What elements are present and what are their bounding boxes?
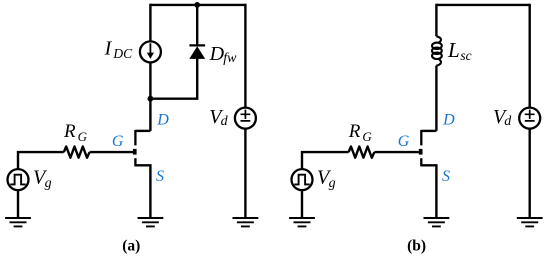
pulse glyph (b) [294, 175, 309, 185]
svg-text:fw: fw [223, 51, 237, 66]
svg-text:g: g [45, 176, 52, 191]
svg-text:sc: sc [460, 48, 471, 63]
transistor Q1 channel upper segment (a) [134, 130, 136, 145]
svg-text:D: D [442, 111, 455, 128]
wire: top rail (b) [436, 4, 529, 6]
wire: V_d branch lower (b) [529, 129, 531, 217]
wire: diode branch upper [196, 4, 198, 46]
wire: I_DC branch upper [149, 4, 151, 41]
ground: under source (b) [424, 218, 450, 226]
svg-text:d: d [504, 114, 512, 129]
current source I_DC arrow [149, 43, 151, 53]
svg-text:S: S [442, 168, 450, 185]
wire: V_d branch lower (a) [244, 129, 246, 217]
wire: top rail (a) [150, 4, 245, 6]
svg-text:G: G [362, 129, 372, 144]
diode D_fw triangle [189, 46, 205, 59]
wire: gate lead (b) [374, 151, 419, 153]
wire: gate lead (a) [90, 151, 133, 153]
wire: drain link (a) [135, 130, 150, 132]
pulse glyph (a) [10, 175, 25, 185]
svg-text:D: D [209, 43, 225, 65]
wire: drain branch below inductor (b) [435, 66, 437, 131]
wire: source link + source down (a) [135, 165, 150, 217]
transistor Q1 channel lower segment (a) [134, 158, 136, 166]
ground: under V_g (b) [289, 218, 315, 226]
ground: under V_g (a) [5, 218, 31, 226]
svg-text:g: g [329, 176, 336, 191]
svg-text:d: d [221, 114, 229, 129]
svg-text:DC: DC [112, 46, 133, 61]
wire: V_g branch lower (a) [17, 191, 19, 218]
ground: under V_d (a) [233, 218, 259, 226]
svg-text:(b): (b) [407, 237, 426, 254]
wire: V_g branch lower (b) [301, 191, 303, 218]
svg-text:(a): (a) [122, 237, 140, 254]
wire: I_DC branch lower to drain [149, 63, 151, 131]
resistor R_G zigzag (b) [349, 147, 375, 158]
inductor L_sc [432, 36, 442, 65]
wire: V_g top corner to resistor (b) [302, 152, 349, 169]
V_d plusminus glyph (a) [241, 110, 251, 121]
wire: V_g top corner to resistor (a) [18, 152, 64, 169]
wire: V_d branch upper (a) [244, 4, 246, 108]
transistor Q2 gate T-bar (b) [419, 149, 423, 155]
current source I_DC circle [140, 41, 161, 62]
pulse source V_g circle (b) [292, 169, 313, 190]
svg-text:I: I [104, 37, 113, 59]
voltage source V_d circle (a) [235, 108, 256, 129]
pulse source V_g circle (a) [8, 169, 29, 190]
svg-text:G: G [112, 133, 124, 150]
diode D_fw cathode bar [189, 44, 205, 46]
svg-text:L: L [447, 38, 460, 62]
svg-text:R: R [63, 121, 76, 142]
transistor Q2 channel lower segment (b) [420, 158, 422, 166]
node: top junction dot (a) [194, 2, 200, 8]
ground: under source (a) [138, 218, 164, 226]
wire: source link + source down (b) [421, 165, 436, 217]
wire: drain branch above inductor (b) [435, 4, 437, 37]
V_d plusminus glyph (b) [525, 110, 535, 121]
wire: drain link (b) [421, 130, 436, 132]
resistor R_G zigzag (a) [64, 147, 90, 158]
wire: diode branch lower + link to drain node [150, 58, 197, 99]
node: drain junction dot (a) [148, 96, 154, 102]
svg-text:D: D [156, 111, 169, 128]
transistor Q1 gate T-bar (a) [133, 149, 137, 155]
voltage source V_d circle (b) [519, 108, 540, 129]
svg-text:R: R [348, 121, 361, 142]
svg-text:G: G [398, 133, 410, 150]
ground: under V_d (b) [517, 218, 543, 226]
svg-text:G: G [78, 129, 88, 144]
svg-text:S: S [156, 168, 164, 185]
wire: V_d branch upper (b) [529, 4, 531, 108]
transistor Q2 channel upper segment (b) [420, 130, 422, 145]
